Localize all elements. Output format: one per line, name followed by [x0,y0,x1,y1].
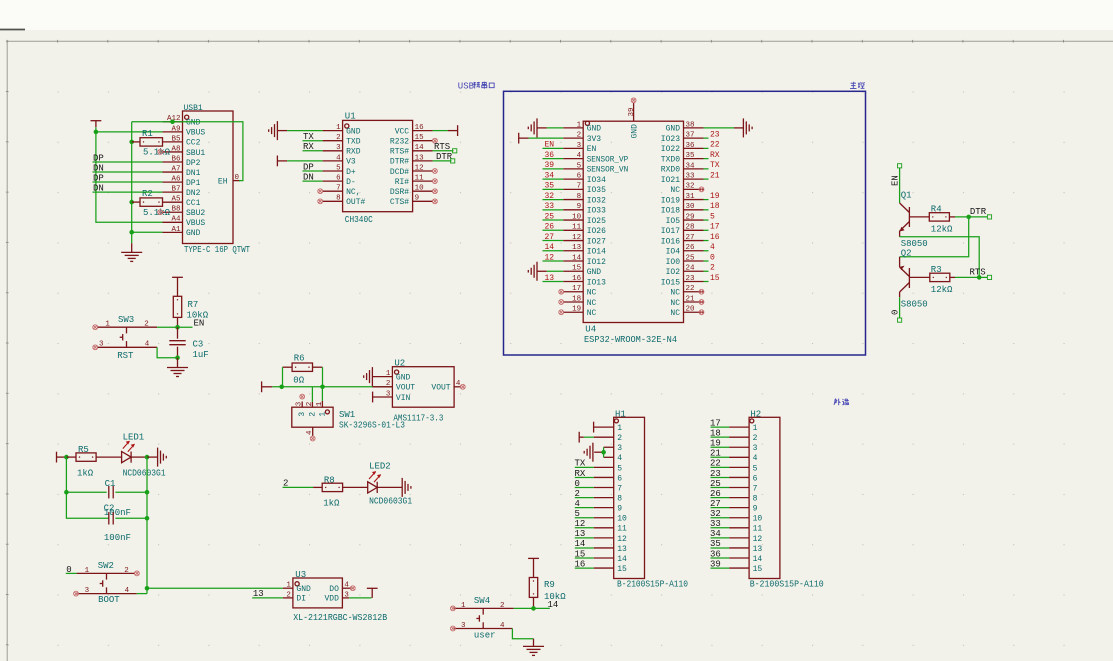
svg-text:DCD#: DCD# [390,168,409,177]
junction C1 left [64,490,69,495]
svg-text:1: 1 [105,321,110,329]
svg-text:NC: NC [670,289,680,298]
svg-text:9: 9 [753,505,758,514]
svg-text:8: 8 [617,494,622,503]
svg-text:VDD: VDD [324,595,339,604]
svg-text:12: 12 [575,519,586,529]
svg-text:19: 19 [572,306,581,314]
wire label 2 to H1 pin8 [575,489,594,499]
svg-text:26: 26 [545,223,555,232]
svg-text:U1: U1 [345,112,356,122]
IC U2 AMS1117-3.3 body [372,358,461,423]
svg-text:SBU2: SBU2 [186,209,205,218]
svg-text:VIN: VIN [396,394,411,403]
svg-text:32: 32 [545,192,555,201]
svg-text:22: 22 [686,285,695,293]
no-connect USB1 SBU2 [158,210,163,215]
svg-text:38: 38 [686,121,695,129]
svg-text:100nF: 100nF [104,533,131,543]
ground symbol at U4 pin15 [528,262,563,281]
wire U1 GND [287,130,322,132]
wire label 14 to H1 pin13 [575,539,594,549]
wire label 14 to U4 pin13 [543,243,564,252]
junction C2 right [145,516,150,521]
svg-text:4: 4 [336,154,341,162]
svg-text:10: 10 [415,185,425,193]
wire end EN [898,164,902,168]
svg-text:DP1: DP1 [186,179,201,188]
svg-text:9: 9 [577,203,582,211]
svg-text:S8050: S8050 [901,299,928,309]
resistor R4 12k [909,204,955,234]
svg-text:GND: GND [587,125,602,134]
wire left cap rail [66,457,108,518]
power bar VBUS at USB1 [91,121,102,128]
svg-text:SENSOR_VP: SENSOR_VP [587,155,629,164]
svg-text:7: 7 [617,484,622,493]
svg-text:19: 19 [710,439,721,449]
svg-text:32: 32 [710,509,721,519]
wire label 5 to H1 pin10 [575,509,594,519]
svg-text:2: 2 [286,591,291,599]
svg-text:EN: EN [194,319,205,329]
junction DTR [966,215,971,220]
svg-text:IO4: IO4 [666,248,681,257]
svg-text:7: 7 [336,185,341,193]
svg-text:4: 4 [575,499,580,509]
wire DTR from U1 DTR# [433,152,453,162]
wire label 36 to U4 pin4 [543,151,564,160]
svg-text:16: 16 [572,275,582,283]
junction R9 SW4 [531,606,536,611]
wire label 5 from U4 pin29 [704,212,716,221]
no-connect U1 pin7 [318,189,323,194]
resistor R5 1k [66,445,121,478]
svg-text:35: 35 [710,539,721,549]
svg-text:GND: GND [631,124,640,139]
section label USB转串口 [458,81,494,91]
svg-text:5: 5 [577,162,582,170]
svg-text:IO5: IO5 [666,217,681,226]
wire SW1 pin2 up to rail [311,387,313,402]
svg-text:1uF: 1uF [193,350,209,360]
svg-text:CH340C: CH340C [345,215,374,225]
wire label 16 from U4 pin27 [704,233,720,242]
svg-text:R5: R5 [78,445,89,455]
svg-text:DN2: DN2 [186,189,201,198]
svg-text:25: 25 [710,479,721,489]
svg-text:IO13: IO13 [587,278,606,287]
svg-text:GND: GND [396,373,411,382]
junction boot net [145,586,150,591]
junction rail R6 left [279,385,284,390]
svg-text:0: 0 [575,479,580,489]
wire label 23 from U4 pin37 [704,130,720,139]
svg-text:15: 15 [415,134,425,142]
svg-text:R3: R3 [931,265,942,275]
svg-text:USB1: USB1 [184,104,203,113]
wire label 2 to R8 [283,479,314,489]
no-connect U1 pin12 [433,169,438,174]
no-connect U1 pin10 [433,189,438,194]
svg-text:IO33: IO33 [587,207,606,216]
wire label 25 to U4 pin10 [543,212,564,221]
svg-text:DI: DI [296,595,306,604]
svg-text:SW3: SW3 [118,315,134,325]
wire label 34 to H2 pin12 [710,529,729,539]
svg-text:4: 4 [306,430,314,435]
svg-text:NC: NC [587,309,597,318]
ground symbol below SW4 [523,639,544,656]
svg-text:TXD0: TXD0 [661,155,680,164]
junction LED1 cathode [145,455,150,460]
svg-text:35: 35 [686,152,696,160]
svg-text:R2: R2 [142,189,153,199]
IC U3 XL-2121RGBC-WS2812B body [283,570,388,623]
no-connect U1 pin8 [318,199,323,204]
no-connect U2 pin4 [460,384,465,389]
wire DN2 with label DN [93,183,163,193]
svg-text:R9: R9 [544,580,555,590]
svg-text:NC: NC [670,299,680,308]
svg-text:IO16: IO16 [661,237,680,246]
svg-text:32: 32 [686,183,695,191]
wire DP to U1 D+ [303,162,323,172]
wire label 12 to U4 pin14 [543,253,564,262]
svg-text:26: 26 [686,244,696,252]
svg-text:37: 37 [686,132,695,140]
no-connect U4 pin18 [559,300,564,305]
svg-text:1: 1 [318,412,327,417]
wire label 19 to H2 pin3 [710,439,729,449]
LED LED1 NCD0603G1 [122,432,166,478]
svg-text:18: 18 [710,202,720,211]
svg-text:30: 30 [686,203,696,211]
svg-text:7: 7 [753,484,758,493]
no-connect U4 pin21 [699,300,704,305]
svg-text:DP: DP [303,162,314,172]
svg-text:NC: NC [670,309,680,318]
svg-text:34: 34 [545,171,555,180]
svg-text:VCC: VCC [395,127,410,136]
junction GND rail / R1 [129,140,134,145]
junction R5 left [64,455,69,460]
svg-text:5: 5 [575,509,580,519]
svg-text:6: 6 [577,173,582,181]
no-connect U4 pin17 [559,289,564,294]
svg-text:LED2: LED2 [369,462,391,472]
wire end DTR [987,215,991,219]
power bar at H1 pin1 [593,422,595,433]
svg-text:1: 1 [386,370,391,378]
no-connect SW4 pin1 [451,606,456,611]
wire label EN to U4 pin3 [543,141,564,150]
svg-text:13: 13 [253,589,264,599]
wire label 27 to H2 pin9 [710,499,729,509]
svg-text:2: 2 [124,567,129,575]
svg-text:8: 8 [577,193,582,201]
svg-text:A6: A6 [171,176,181,184]
connector H2 B-2100S15P-A110 body [729,409,824,589]
svg-text:SK-3296S-01-L3: SK-3296S-01-L3 [339,421,405,431]
section label 外设 [834,399,849,406]
wire label TX from U4 pin34 [704,161,720,170]
svg-text:16: 16 [575,559,586,569]
capacitor C3 1uF [169,327,208,360]
svg-text:DTR#: DTR# [390,158,409,167]
svg-text:11: 11 [753,525,763,534]
svg-text:12: 12 [572,234,581,242]
svg-text:6: 6 [336,175,341,183]
junction at USB GND [170,120,175,125]
wire label 33 to H2 pin11 [710,519,729,529]
svg-text:5.1kΩ: 5.1kΩ [143,208,171,218]
wire U1 V3 [287,160,322,162]
svg-text:2: 2 [753,434,758,443]
wire SW1 pin1 up to rail [321,387,323,401]
svg-text:5: 5 [336,164,341,172]
svg-text:27: 27 [545,233,555,242]
svg-text:XL-2121RGBC-WS2812B: XL-2121RGBC-WS2812B [293,613,388,623]
svg-text:2: 2 [500,602,505,610]
svg-text:SW4: SW4 [474,596,490,606]
svg-text:1: 1 [577,121,582,129]
svg-text:A4: A4 [171,216,181,224]
svg-text:A8: A8 [171,145,180,153]
ground symbol at U4 pin1 [528,118,563,137]
svg-text:RTS#: RTS# [390,148,409,157]
junction C3 gnd [175,355,180,360]
svg-text:4: 4 [710,243,715,252]
wire SW4 pin4 to ground [512,629,533,639]
svg-text:RTS: RTS [434,142,450,152]
ground symbol at U2 pin1 [364,367,373,386]
svg-text:R232: R232 [390,138,409,147]
svg-text:A9: A9 [171,125,180,133]
svg-text:15: 15 [617,565,627,574]
junction C1 right [145,490,150,495]
svg-text:GND: GND [666,125,681,134]
svg-text:17: 17 [572,285,581,293]
wire DN1 with label DN [93,163,163,173]
svg-text:15: 15 [572,265,582,273]
svg-text:1kΩ: 1kΩ [323,499,340,509]
svg-text:3V3: 3V3 [587,135,602,144]
svg-text:3: 3 [617,444,622,453]
no-connect U3 DO [350,586,355,591]
wire TX to U1 TXD [303,132,323,142]
svg-text:2: 2 [144,321,149,329]
wire Q2 collector to IO0 [890,297,900,318]
no-connect U1 pin9 [433,199,438,204]
wire label RX to H1 pin6 [575,469,594,479]
no-connect U4 pin20 [699,310,704,315]
svg-text:4: 4 [500,622,505,630]
svg-text:10: 10 [753,515,763,524]
svg-text:R4: R4 [931,204,942,214]
svg-text:39: 39 [545,161,555,170]
svg-text:12: 12 [545,253,555,262]
svg-text:22: 22 [710,459,721,469]
no-connect SW1 pin3 [300,394,305,399]
svg-text:DP: DP [93,153,104,163]
no-connect U4 pin32 [699,187,704,192]
power bar above R7 [172,277,183,296]
svg-text:35: 35 [545,182,555,191]
wire label 36 to H2 pin14 [710,549,729,559]
svg-text:2: 2 [575,489,580,499]
wire DTR to Q2 emitter [900,217,969,257]
svg-text:9: 9 [617,505,622,514]
wire label 13 to U4 pin16 [543,274,564,283]
wire U1 VCC to power bar [433,125,458,136]
wire label 19 from U4 pin31 [704,192,720,201]
svg-text:5: 5 [753,464,758,473]
svg-text:11: 11 [617,525,627,534]
svg-text:DO: DO [329,585,339,594]
svg-text:IO2: IO2 [666,268,681,277]
svg-text:24: 24 [686,265,696,273]
resistor R7 10k EN pullup [173,296,208,327]
wire DP1 with label DP [93,173,163,183]
wire label 21 to H2 pin4 [710,449,729,459]
svg-text:Q2: Q2 [901,249,912,259]
svg-text:3: 3 [296,401,304,406]
junction RTS [977,275,982,280]
svg-text:R8: R8 [324,476,335,486]
svg-text:TXD: TXD [346,138,361,147]
svg-text:GND: GND [186,119,201,128]
svg-text:33: 33 [710,519,721,529]
svg-text:RXD0: RXD0 [661,166,680,175]
svg-text:IO32: IO32 [587,196,606,205]
svg-text:GND: GND [587,268,602,277]
wire label 4 to H1 pin9 [575,499,594,509]
svg-text:1: 1 [617,424,622,433]
svg-text:RST: RST [117,351,134,361]
svg-text:DSR#: DSR# [390,188,409,197]
wire label 21 from U4 pin33 [704,171,720,180]
wire label 35 to U4 pin7 [543,182,564,191]
junction H1 gnd [601,450,606,455]
svg-text:DN: DN [93,163,104,173]
svg-text:29: 29 [686,213,695,221]
no-connect SW3 pin3 [93,345,98,350]
svg-text:RX: RX [575,469,586,479]
wire end RTS [453,149,457,153]
wire boot net to U3 [147,587,283,589]
wire label 16 to H1 pin15 [575,559,594,569]
svg-text:5.1kΩ: 5.1kΩ [143,148,171,158]
svg-text:CC1: CC1 [186,199,201,208]
svg-text:VOUT: VOUT [431,384,450,393]
wire label RX from U4 pin35 [704,151,720,160]
wire EN node [157,319,204,329]
svg-text:13: 13 [575,529,586,539]
wire label 2 from U4 pin24 [704,264,716,273]
svg-text:3: 3 [336,144,341,152]
svg-text:23: 23 [686,275,696,283]
wire label 27 to U4 pin12 [543,233,564,242]
svg-text:34: 34 [686,162,696,170]
svg-text:13: 13 [617,545,627,554]
svg-text:EH: EH [218,177,228,186]
svg-text:14: 14 [617,555,627,564]
LED LED2 NCD0603G1 [368,462,412,507]
wire label 22 to H2 pin5 [710,459,729,469]
svg-text:1kΩ: 1kΩ [77,468,94,478]
svg-text:RXD: RXD [346,148,361,157]
svg-text:user: user [474,631,496,641]
svg-text:Q1: Q1 [901,190,912,200]
svg-text:IO23: IO23 [661,135,680,144]
wire VBUS net [96,127,163,222]
svg-text:10: 10 [572,213,582,221]
wire label 0 to H1 pin7 [575,479,594,489]
svg-text:1: 1 [461,602,466,610]
svg-text:31: 31 [686,193,696,201]
svg-text:3: 3 [344,591,349,599]
section box 主控 (main controller) [504,82,866,355]
svg-text:22: 22 [710,141,720,150]
svg-text:R1: R1 [142,129,153,139]
no-connect USB1 SBU1 [158,150,163,155]
svg-text:R6: R6 [294,354,305,364]
svg-text:15: 15 [753,565,763,574]
svg-text:25: 25 [686,254,696,262]
wire DN to U1 D- [303,172,323,182]
svg-text:23: 23 [710,469,721,479]
svg-text:2: 2 [336,134,341,142]
svg-text:2: 2 [710,264,715,273]
svg-text:36: 36 [710,549,721,559]
svg-text:GND: GND [186,229,201,238]
svg-text:EN: EN [587,145,597,154]
wire DTR node [955,207,987,217]
svg-text:0: 0 [235,174,240,182]
svg-text:11: 11 [415,175,425,183]
svg-text:7: 7 [577,183,582,191]
svg-text:GND: GND [296,585,311,594]
svg-text:9: 9 [415,195,420,203]
power bar at R5 [57,452,67,463]
svg-text:IO34: IO34 [587,176,606,185]
junction EN node [175,325,180,330]
svg-text:IO14: IO14 [587,248,606,257]
svg-text:13: 13 [545,274,555,283]
junction GND rail / A1 [129,230,134,235]
svg-text:H2: H2 [750,409,761,419]
wire label 15 from U4 pin23 [704,274,720,283]
svg-text:14: 14 [575,539,586,549]
svg-text:A7: A7 [171,165,180,173]
svg-text:4: 4 [753,454,758,463]
svg-text:VBUS: VBUS [186,129,205,138]
no-connect SW3 pin1 [93,325,98,330]
wire label 17 to H2 pin1 [710,418,729,428]
svg-text:NCD0603G1: NCD0603G1 [123,468,166,478]
svg-text:13: 13 [572,244,582,252]
wire 5V rail to U2 VOUT [272,386,392,388]
svg-text:NC: NC [670,186,680,195]
svg-text:17: 17 [710,418,721,428]
svg-text:10: 10 [617,515,627,524]
resistor R3 12k [909,265,955,295]
svg-text:8: 8 [336,195,341,203]
svg-text:H1: H1 [615,409,626,419]
svg-text:23: 23 [710,130,720,139]
svg-text:13: 13 [753,545,763,554]
